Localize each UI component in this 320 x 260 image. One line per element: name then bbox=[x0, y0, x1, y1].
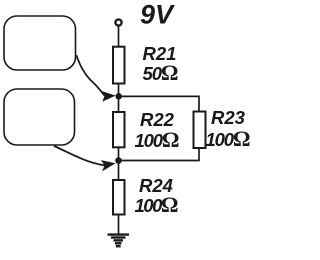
svg-text:100Ω: 100Ω bbox=[135, 192, 179, 217]
svg-text:100Ω: 100Ω bbox=[206, 126, 251, 151]
svg-text:50Ω: 50Ω bbox=[143, 60, 179, 85]
svg-text:9V: 9V bbox=[140, 0, 175, 30]
svg-text:R23: R23 bbox=[211, 107, 246, 128]
svg-text:100Ω: 100Ω bbox=[135, 127, 180, 152]
